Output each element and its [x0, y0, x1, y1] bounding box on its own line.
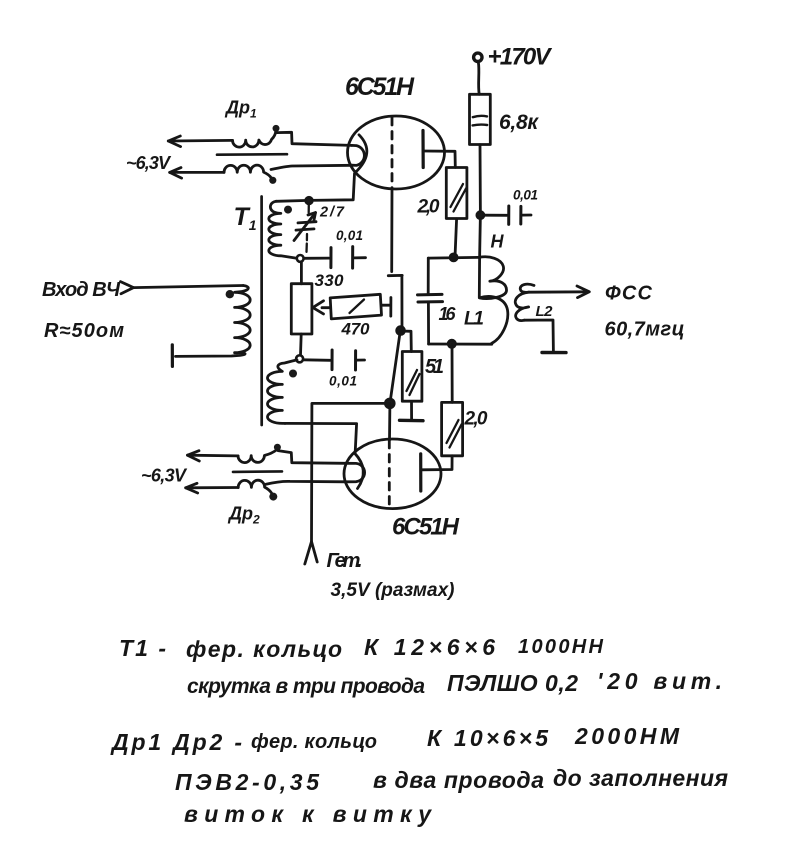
choke DR2 core bar: [233, 470, 282, 473]
wire B+ from R 6,8k down to L1 tap: [479, 145, 480, 298]
note line 1: T1 spec: [119, 634, 604, 662]
wire horizontal to Get line: [312, 402, 390, 405]
note line 4: DR wire spec: [175, 765, 728, 795]
wire slant to lower grid node: [390, 331, 400, 402]
svg-text:Вход ВЧ: Вход ВЧ: [42, 279, 121, 301]
resistor R 51: [401, 331, 422, 420]
tube V1 envelope: [348, 116, 445, 189]
wire input to primary: [134, 286, 244, 288]
note line 3: DR1 DR2 spec: [110, 723, 680, 755]
tube V1 anode: [421, 131, 424, 168]
svg-text:ПЭЛШО 0,2: ПЭЛШО 0,2: [447, 670, 578, 696]
node +170V terminal: [474, 53, 482, 61]
svg-text:2/7: 2/7: [319, 205, 345, 221]
svg-text:0,01: 0,01: [336, 228, 363, 243]
capacitor C 0,01 (anode bypass top): [484, 206, 531, 224]
wire heater top: [168, 139, 232, 142]
svg-text:'20 вит.: '20 вит.: [597, 668, 722, 694]
svg-text:~6,3V: ~6,3V: [126, 153, 172, 173]
svg-text:ПЭВ2-0,35: ПЭВ2-0,35: [175, 769, 320, 795]
tube V1 grid (dashed): [391, 118, 394, 188]
svg-text:Др1: Др1: [224, 98, 257, 121]
winding dot DR2 bottom: [269, 493, 277, 501]
svg-text:Др2: Др2: [227, 504, 260, 527]
arrow heater bottom left: [170, 168, 182, 179]
wire V2 cathode lead to T1 winding: [285, 423, 357, 452]
T1 upper winding: [269, 201, 297, 258]
resistor R 2,0 (top): [446, 168, 467, 219]
svg-text:до заполнения: до заполнения: [553, 765, 728, 791]
svg-text:ФСС: ФСС: [605, 283, 653, 305]
svg-text:L2: L2: [536, 303, 554, 320]
svg-text:6С51Н: 6С51Н: [345, 73, 415, 101]
node winding/cap junction: [297, 255, 304, 262]
wire DR2 step to V2 heater bottom: [266, 481, 345, 484]
node tank top: [450, 254, 457, 261]
wire heater bottom: [170, 171, 224, 174]
tube V2 cathode: [355, 453, 364, 489]
wire heater DR2 top: [188, 454, 239, 457]
wire L2 to output arrow: [529, 290, 587, 293]
wire tank bottom to R 2,0 lower: [451, 344, 454, 402]
svg-text:К 12×6×6: К 12×6×6: [364, 634, 495, 660]
inductor L2: [515, 284, 534, 320]
wire R 2,0 bottom to V2 anode: [422, 456, 453, 470]
winding dot DR1 bottom: [269, 177, 276, 184]
svg-text:6С51Н: 6С51Н: [392, 514, 460, 541]
svg-text:470: 470: [341, 320, 371, 339]
svg-text:в два провода: в два провода: [373, 767, 544, 793]
transformer T1 core: [260, 197, 263, 426]
node primary top: [226, 290, 234, 298]
svg-text:L1: L1: [464, 309, 484, 330]
wire V1 cathode lead down to winding: [276, 174, 354, 202]
arrow input: [121, 282, 134, 294]
choke DR1 core bar: [217, 153, 287, 156]
wire DR1 step to V1 heater bottom: [271, 165, 352, 169]
svg-text:51: 51: [425, 356, 444, 378]
wire DR1 step to V1 heater top: [277, 132, 352, 145]
svg-text:3,5V (размах): 3,5V (размах): [331, 580, 455, 601]
wire heater DR2 bottom: [186, 486, 239, 489]
svg-text:1000НН: 1000НН: [518, 636, 604, 658]
winding dot DR1 top: [273, 125, 280, 132]
tube V1 heater: [352, 145, 365, 165]
svg-text:2,0: 2,0: [464, 409, 488, 430]
svg-text:60,7мгц: 60,7мгц: [605, 319, 685, 341]
winding dot upper: [284, 206, 292, 214]
svg-text:Н: Н: [491, 232, 505, 252]
wire tank bottom edge: [429, 343, 492, 346]
svg-text:Т1: Т1: [234, 203, 257, 233]
node grid junction: [397, 327, 405, 335]
resistor R 6,8k: [470, 94, 491, 144]
note line 2: T1 winding spec: [187, 668, 722, 698]
svg-text:фер. кольцо: фер. кольцо: [186, 636, 342, 662]
wire R 2,0 to tank top: [455, 219, 457, 257]
choke DR2 winding B: [238, 480, 272, 493]
svg-text:виток к витку: виток к витку: [184, 801, 432, 827]
svg-text:330: 330: [315, 271, 345, 290]
svg-text:16: 16: [439, 304, 457, 324]
svg-text:R≈50ом: R≈50ом: [44, 320, 124, 342]
T1 lower winding: [267, 360, 297, 424]
winding dot lower: [289, 370, 297, 378]
arrow heater top left (DR2): [188, 451, 200, 461]
choke DR1 winding A: [233, 131, 276, 147]
svg-text:Т1 -: Т1 -: [119, 635, 166, 661]
tube V1 cathode: [355, 135, 367, 173]
choke DR2 winding A: [238, 450, 277, 463]
wire B+ vertical from terminal to R 6,8k: [477, 63, 481, 95]
choke DR1 winding B: [224, 165, 271, 178]
arrow heater top left: [168, 136, 180, 147]
svg-text:2,0: 2,0: [417, 197, 440, 218]
node lower grid junction: [385, 399, 394, 408]
T1 primary winding: [176, 286, 251, 357]
svg-text:Др1 Др2 -: Др1 Др2 -: [110, 729, 242, 755]
svg-text:0,01: 0,01: [329, 374, 357, 389]
wire V1 anode to R 2,0: [424, 151, 456, 167]
ground input (bar): [171, 345, 174, 367]
node cathode/trimmer junction: [306, 197, 313, 204]
wire Get line vertical: [310, 404, 313, 542]
tube V2 envelope: [344, 439, 441, 509]
ground R 51: [400, 419, 424, 423]
node junction B+ / C 0,01: [477, 212, 484, 219]
inductor L1: [479, 257, 508, 344]
wire tank left edge upper: [427, 258, 430, 294]
tube V2 heater: [345, 463, 364, 482]
wire DR2 step to V2 heater top: [278, 451, 345, 464]
potentiometer R 330: [291, 262, 312, 355]
svg-text:скрутка в три провода: скрутка в три провода: [187, 675, 425, 698]
node tank bottom: [448, 340, 455, 347]
svg-text:2000НМ: 2000НМ: [574, 723, 680, 749]
tube V2 anode: [419, 454, 422, 491]
wire grid node into V2: [388, 404, 391, 440]
wire L2 bottom to ground: [524, 320, 553, 352]
resistor R 2,0 (bottom): [442, 402, 463, 455]
svg-text:+170V: +170V: [488, 44, 553, 71]
wire tank top edge: [428, 256, 479, 260]
capacitor C 16: [418, 294, 443, 302]
arrow Get (heterodyne input): [305, 542, 317, 565]
svg-text:~6,3V: ~6,3V: [141, 466, 188, 486]
tube V2 grid (dashed): [388, 441, 391, 508]
svg-text:К 10×6×5: К 10×6×5: [427, 725, 549, 751]
svg-text:Гет.: Гет.: [327, 550, 363, 572]
trimmer capacitor 2/7: [294, 205, 316, 252]
svg-text:6,8к: 6,8к: [499, 111, 539, 134]
ground L2: [542, 351, 566, 355]
capacitor C 0,01 (upper grid): [304, 247, 366, 269]
resistor R 470 with wiper arrow: [313, 294, 391, 319]
winding dot DR2 top: [274, 444, 281, 451]
node winding/pot lower junction: [296, 355, 303, 362]
arrow heater bottom left (DR2): [186, 483, 198, 493]
svg-text:0,01: 0,01: [513, 188, 538, 203]
svg-text:фер. кольцо: фер. кольцо: [251, 731, 377, 753]
wire tank left edge lower: [427, 302, 430, 344]
arrow output FSS: [577, 286, 589, 298]
capacitor C 0,01 (lower grid): [303, 350, 364, 370]
wire V1 grid lead down with jog: [388, 188, 402, 331]
